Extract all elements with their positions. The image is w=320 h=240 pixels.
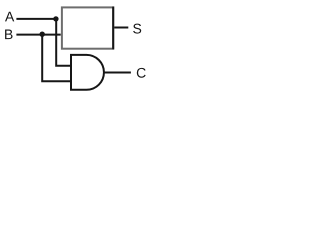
node label A xyxy=(5,12,14,22)
wire A xyxy=(16,18,56,20)
wire B xyxy=(16,34,60,36)
junction dot on A xyxy=(53,16,58,21)
wire B branch to AND gate xyxy=(42,35,71,82)
sum box U1 (gray border) xyxy=(62,7,113,48)
node label S xyxy=(133,24,141,34)
wire C xyxy=(104,72,131,74)
wire A branch to AND gate xyxy=(56,19,71,66)
node label B xyxy=(5,30,12,40)
AND gate U2 xyxy=(71,55,104,90)
wire S xyxy=(114,27,128,29)
node label C xyxy=(137,68,146,78)
sum box right edge (black) xyxy=(112,7,114,50)
junction dot on B xyxy=(40,32,45,37)
